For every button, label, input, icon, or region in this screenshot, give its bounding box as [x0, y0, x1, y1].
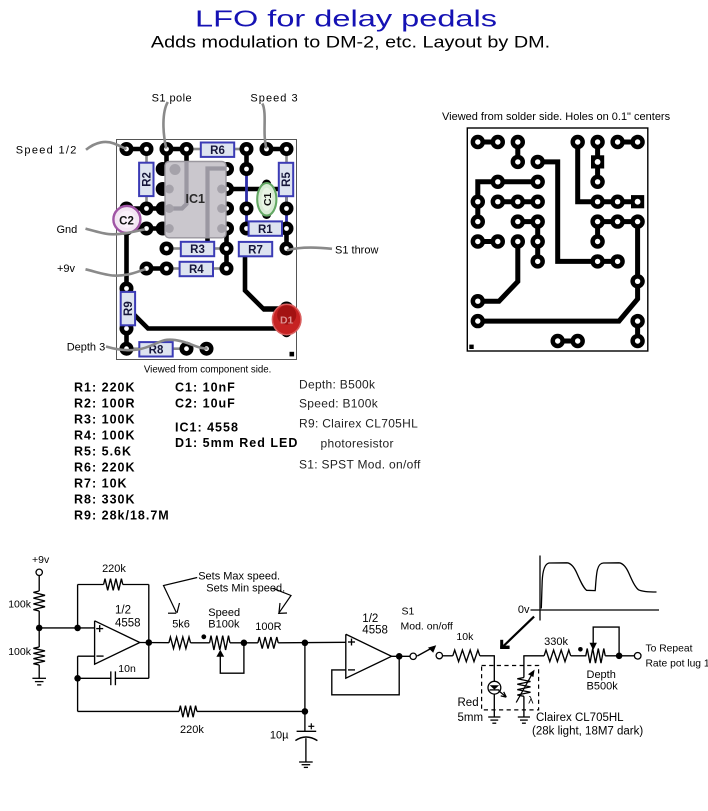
svg-text:D1: D1: [280, 315, 294, 327]
svg-text:Clairex CL705HL: Clairex CL705HL: [536, 712, 624, 724]
svg-text:Gnd: Gnd: [57, 224, 78, 236]
svg-text:B100k: B100k: [208, 619, 240, 631]
svg-text:B500k: B500k: [587, 681, 619, 693]
svg-text:Viewed from solder side. Holes: Viewed from solder side. Holes on 0.1" c…: [442, 111, 671, 123]
svg-text:S1: S1: [402, 606, 415, 618]
svg-text:220k: 220k: [180, 724, 204, 736]
svg-text:R6: 220K: R6: 220K: [74, 461, 136, 475]
svg-text:R3: 100K: R3: 100K: [74, 412, 136, 426]
svg-text:Rate pot lug 1: Rate pot lug 1: [646, 658, 708, 669]
svg-text:R9: R9: [123, 301, 135, 316]
svg-text:R4: 100K: R4: 100K: [74, 428, 136, 442]
svg-text:Viewed from component side.: Viewed from component side.: [144, 364, 271, 375]
svg-text:S1 throw: S1 throw: [335, 245, 378, 257]
svg-text:Mod. on/off: Mod. on/off: [401, 621, 453, 633]
svg-text:R2: 100R: R2: 100R: [74, 396, 136, 410]
svg-text:R5: 5.6K: R5: 5.6K: [74, 445, 132, 459]
svg-text:10k: 10k: [456, 631, 474, 643]
svg-text:Speed: Speed: [208, 607, 240, 619]
svg-text:4558: 4558: [362, 625, 388, 637]
svg-text:5k6: 5k6: [172, 618, 190, 630]
svg-text:330k: 330k: [544, 636, 568, 648]
svg-text:0v: 0v: [518, 604, 530, 616]
svg-text:IC1: IC1: [185, 192, 205, 206]
svg-text:R1: 220K: R1: 220K: [74, 380, 136, 394]
svg-text:100k: 100k: [8, 646, 32, 658]
svg-text:R4: R4: [189, 264, 204, 276]
svg-text:100k: 100k: [8, 599, 32, 611]
svg-text:220k: 220k: [102, 563, 126, 575]
svg-text:R9: Clairex CL705HL: R9: Clairex CL705HL: [299, 417, 418, 431]
svg-text:R9: 28k/18.7M: R9: 28k/18.7M: [74, 509, 170, 523]
svg-text:R7: R7: [248, 244, 263, 256]
svg-text:+9v: +9v: [57, 263, 76, 275]
svg-text:Depth: B500k: Depth: B500k: [299, 377, 376, 391]
svg-text:(28k light, 18M7 dark): (28k light, 18M7 dark): [532, 726, 643, 738]
svg-text:C1: C1: [262, 192, 274, 206]
svg-text:Speed: B100k: Speed: B100k: [299, 397, 379, 411]
svg-text:C2: C2: [119, 215, 134, 227]
svg-text:R3: R3: [190, 244, 205, 256]
svg-text:Speed 3: Speed 3: [250, 92, 298, 104]
svg-text:C1: 10nF: C1: 10nF: [175, 380, 236, 394]
svg-text:4558: 4558: [115, 617, 141, 629]
svg-text:IC1: 4558: IC1: 4558: [175, 420, 239, 434]
svg-text:LFO for delay pedals: LFO for delay pedals: [195, 6, 497, 32]
svg-text:100R: 100R: [255, 621, 281, 633]
svg-text:+9v: +9v: [32, 554, 50, 566]
svg-text:10n: 10n: [118, 663, 136, 675]
svg-text:1/2: 1/2: [115, 605, 131, 617]
svg-text:photoresistor: photoresistor: [321, 436, 394, 450]
svg-text:R7: 10K: R7: 10K: [74, 477, 128, 491]
svg-text:R6: R6: [210, 145, 225, 157]
svg-text:R8: 330K: R8: 330K: [74, 493, 136, 507]
svg-text:Sets Max speed.: Sets Max speed.: [198, 570, 280, 582]
svg-text:S1: SPST Mod. on/off: S1: SPST Mod. on/off: [299, 457, 421, 471]
svg-text:Depth 3: Depth 3: [67, 342, 106, 354]
svg-text:D1: 5mm Red LED: D1: 5mm Red LED: [175, 436, 298, 450]
svg-text:5mm: 5mm: [458, 712, 484, 724]
svg-text:To Repeat: To Repeat: [646, 643, 693, 654]
svg-text:1/2: 1/2: [362, 613, 378, 625]
svg-text:Adds modulation to DM-2, etc.: Adds modulation to DM-2, etc. Layout by …: [151, 32, 550, 51]
svg-text:λ: λ: [528, 695, 534, 707]
svg-text:10µ: 10µ: [270, 730, 289, 742]
svg-text:Speed 1/2: Speed 1/2: [16, 145, 78, 157]
svg-text:S1 pole: S1 pole: [152, 92, 192, 104]
svg-text:Depth: Depth: [587, 669, 616, 681]
svg-text:R2: R2: [141, 172, 153, 187]
svg-text:C2: 10uF: C2: 10uF: [175, 396, 236, 410]
svg-text:R1: R1: [258, 224, 273, 236]
svg-text:Red: Red: [458, 697, 479, 709]
svg-text:R5: R5: [281, 172, 293, 187]
